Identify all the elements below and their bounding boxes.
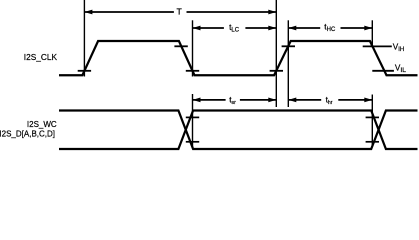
svg-text:VIH: VIH bbox=[393, 42, 404, 52]
svg-text:VIL: VIL bbox=[395, 64, 406, 75]
wire tsr dimension line left segment bbox=[193, 99, 226, 101]
node tick rising edge 2 VIL bbox=[270, 70, 283, 72]
node dimension vertical V1 at rising edge 1 VIL bbox=[83, 0, 85, 77]
wire tLC dimension line right segment bbox=[245, 27, 276, 29]
wire thr dimension line right segment bbox=[338, 99, 372, 101]
svg-text:tHC: tHC bbox=[324, 22, 336, 33]
node tick rising edge 2 VIH bbox=[282, 45, 295, 47]
node tick falling edge 1 VIH bbox=[174, 45, 187, 47]
svg-text:thr: thr bbox=[326, 95, 333, 106]
node dimension vertical V4 at rising edge 2 VIH bbox=[287, 20, 289, 107]
svg-text:tsr: tsr bbox=[229, 95, 236, 106]
node T right arrowhead bbox=[268, 10, 276, 15]
svg-text:I2S_CLK: I2S_CLK bbox=[24, 52, 58, 62]
wire tHC dimension line left segment bbox=[288, 27, 320, 29]
node tHC left arrowhead bbox=[288, 26, 296, 31]
node dimension vertical V5 upper at falling edge 2 VIH bbox=[371, 20, 373, 47]
wire VIH leader line with tick on falling edge 2 bbox=[363, 45, 392, 47]
node thr right arrowhead bbox=[364, 98, 372, 103]
svg-text:I2S_WC: I2S_WC bbox=[27, 120, 57, 129]
node tick bus X2 lower bbox=[366, 141, 379, 143]
wire thr dimension line left segment bbox=[288, 99, 321, 101]
wire tLC dimension line left segment bbox=[193, 27, 224, 29]
node tick bus X1 lower bbox=[186, 141, 199, 143]
node tHC right arrowhead bbox=[364, 26, 372, 31]
wire I2S_CLK waveform bbox=[59, 41, 418, 75]
wire I2S data bus top rail with X transitions bbox=[59, 111, 418, 150]
wire VIL leader line with tick on falling edge 2 bbox=[372, 70, 394, 72]
node T left arrowhead bbox=[84, 10, 92, 15]
node tLC right arrowhead bbox=[268, 26, 276, 31]
wire T dimension line left segment bbox=[84, 11, 173, 13]
node dimension vertical V3 at rising edge 2 VIL bbox=[275, 0, 277, 107]
node tsr right arrowhead bbox=[268, 98, 276, 103]
node tick bus X1 upper bbox=[186, 116, 199, 118]
node dimension vertical V5 lower through bus X2 bbox=[371, 95, 373, 148]
svg-text:I2S_D[A,B,C,D]: I2S_D[A,B,C,D] bbox=[0, 129, 55, 138]
node dimension vertical V2 lower through bus X1 bbox=[192, 94, 194, 149]
wire T dimension line right segment bbox=[187, 11, 277, 13]
node dimension vertical V2 upper at falling edge 1 VIL bbox=[192, 20, 194, 76]
wire tHC dimension line right segment bbox=[341, 27, 373, 29]
svg-text:T: T bbox=[176, 7, 182, 17]
node tick falling edge 1 VIL bbox=[186, 70, 199, 72]
node tsr left arrowhead bbox=[193, 98, 201, 103]
svg-text:tLC: tLC bbox=[229, 22, 240, 34]
node thr left arrowhead bbox=[288, 98, 296, 103]
node tick rising edge 1 VIL bbox=[78, 70, 91, 72]
wire tsr dimension line right segment bbox=[240, 99, 276, 101]
node tick bus X2 upper bbox=[366, 116, 379, 118]
wire I2S data bus bottom rail with X transitions bbox=[59, 111, 418, 150]
node tLC left arrowhead bbox=[193, 26, 201, 31]
